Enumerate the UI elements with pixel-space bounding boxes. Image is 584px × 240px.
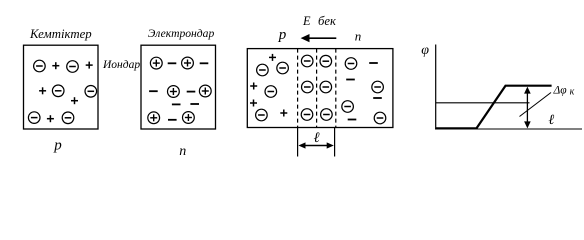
depletion layer ion circles	[301, 55, 332, 120]
electron symbol row1	[150, 57, 208, 69]
depletion dashed line mid	[316, 49, 318, 128]
svg-text:ℓ: ℓ	[548, 113, 554, 128]
svg-text:бек: бек	[318, 14, 337, 28]
electron symbol row2	[149, 85, 211, 97]
depletion dashed line right	[335, 49, 337, 128]
p-semiconductor box	[24, 45, 99, 129]
svg-text:Δφ: Δφ	[553, 85, 568, 97]
svg-text:p: p	[53, 137, 62, 153]
leader line	[520, 93, 552, 117]
depletion dashed line left	[297, 49, 299, 128]
svg-text:n: n	[355, 29, 362, 44]
hole symbol row2	[39, 85, 97, 104]
potential difference double arrow	[524, 87, 531, 129]
hole symbol row1	[34, 60, 93, 72]
field arrow pointing left	[301, 34, 337, 42]
junction p-side symbols	[250, 54, 288, 121]
svg-text:Е: Е	[302, 14, 311, 28]
svg-text:n: n	[179, 144, 186, 159]
electron symbol row3	[148, 112, 195, 124]
initial level line	[436, 102, 530, 104]
width extension line right	[334, 128, 336, 157]
svg-text:Электрондар: Электрондар	[148, 27, 215, 40]
width extension line left	[297, 128, 299, 157]
electron mid dashes	[172, 103, 199, 105]
width double arrow	[298, 142, 333, 148]
junction n-side symbols	[342, 58, 386, 124]
potential curve	[436, 86, 552, 129]
svg-text:ℓ: ℓ	[313, 130, 319, 146]
svg-text:Иондар: Иондар	[102, 59, 140, 71]
potential y-axis	[435, 45, 437, 130]
n-semiconductor box	[141, 45, 216, 129]
svg-text:φ: φ	[421, 43, 429, 58]
svg-text:к: к	[570, 86, 575, 97]
svg-text:p: p	[278, 27, 287, 43]
hole symbol row3	[28, 112, 73, 124]
junction box	[247, 49, 393, 128]
potential x-axis	[435, 128, 582, 130]
svg-text:Кемтіктер: Кемтіктер	[29, 27, 92, 41]
